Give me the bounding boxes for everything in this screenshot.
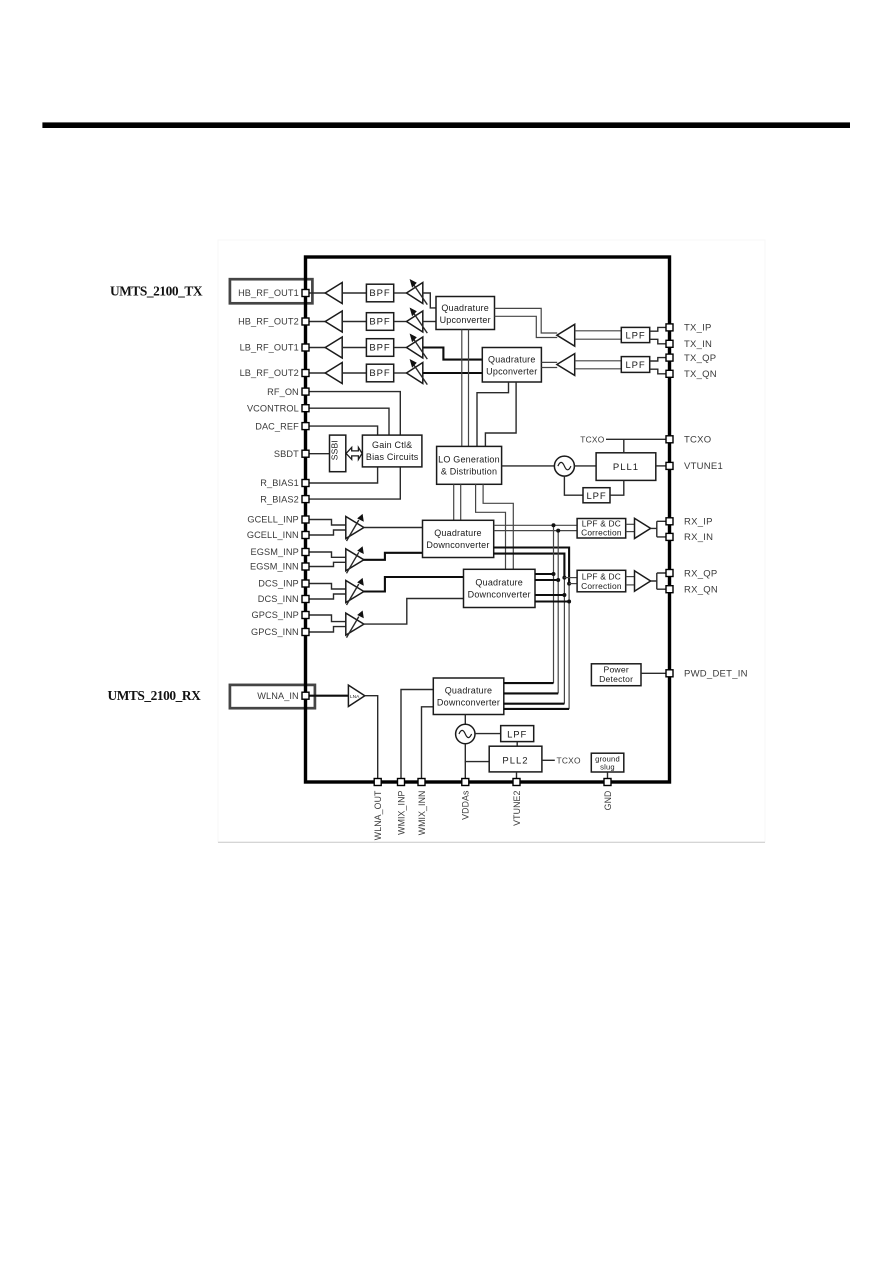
quadrature upconverter U1 [436, 297, 495, 330]
wire row4 to upconverter U2 [423, 372, 483, 374]
wire into LPF DC 2 line2 [569, 583, 577, 585]
quadrature downconverter D2 [464, 569, 536, 607]
wire LPF1 to A1 line2 [575, 338, 622, 340]
bidirectional arrow SSBI-GainCtl [346, 447, 362, 459]
VGA row4 [407, 363, 423, 384]
wire LPF3 to PLL1 [610, 480, 624, 495]
svg-text:& Distribution: & Distribution [441, 466, 497, 476]
wire TX_IN jog [650, 339, 667, 344]
chip outline [306, 257, 670, 782]
wire U1 LO line1 [461, 330, 463, 447]
svg-text:LNA: LNA [350, 694, 360, 700]
pin WLNA_OUT [374, 779, 381, 786]
svg-text:PLL1: PLL1 [613, 462, 639, 473]
svg-text:Detector: Detector [599, 674, 633, 684]
svg-text:VTUNE1: VTUNE1 [684, 461, 723, 472]
wire WLNA_IN to LNA [308, 695, 348, 697]
wire TX row4 pin to amp [308, 372, 325, 374]
svg-text:TCXO: TCXO [684, 435, 711, 446]
svg-text:BPF: BPF [369, 343, 390, 354]
svg-text:Power: Power [604, 664, 629, 674]
wire DCS_INP [308, 584, 346, 590]
highlight box HB_RF_OUT1 [230, 279, 313, 303]
wire TX_QP jog [650, 358, 667, 361]
svg-text:GCELL_INN: GCELL_INN [247, 530, 299, 540]
wire TX row3 amp to BPF [342, 347, 366, 349]
svg-text:LB_RF_OUT1: LB_RF_OUT1 [240, 343, 299, 353]
LNA EGSM [346, 549, 364, 571]
wire TX_QN jog [650, 369, 667, 374]
amplifier A4 RX Q [635, 571, 651, 591]
svg-text:VDDAs: VDDAs [461, 790, 471, 820]
wire GCELL_INP [308, 520, 346, 526]
wire TCXO net [606, 438, 667, 440]
wire D3 out4 [504, 708, 569, 710]
svg-text:RX_QN: RX_QN [684, 585, 718, 596]
wire LPF2 to A2 line2 [575, 368, 622, 370]
svg-text:LPF: LPF [507, 730, 527, 741]
wire U2 LO line1 [477, 382, 509, 446]
VGA row1 gain arrow [413, 284, 427, 305]
pin GCELL_INP [302, 516, 309, 523]
svg-text:PWD_DET_IN: PWD_DET_IN [684, 669, 748, 680]
svg-text:LPF: LPF [586, 491, 606, 502]
LPF TX I [621, 327, 649, 342]
junction dots [552, 523, 572, 603]
svg-text:HB_RF_OUT2: HB_RF_OUT2 [238, 317, 299, 327]
pin RX_QN [666, 586, 673, 593]
wire GPCS output [362, 599, 463, 625]
svg-text:R_BIAS1: R_BIAS1 [260, 478, 299, 488]
svg-text:BPF: BPF [369, 368, 390, 379]
svg-text:Correction: Correction [581, 528, 622, 538]
svg-text:LO Generation: LO Generation [438, 454, 500, 464]
wire WMIX_INN [422, 707, 434, 782]
svg-text:TCXO: TCXO [580, 434, 605, 444]
PLL2 box [489, 746, 542, 772]
horizontal rule [42, 122, 850, 128]
wire WMIX_INP [401, 690, 433, 783]
wire row2 to upconverter U1 [423, 321, 436, 323]
amplifier A2 TX Q [557, 354, 575, 376]
svg-text:Correction: Correction [581, 581, 622, 591]
svg-text:RF_ON: RF_ON [267, 387, 299, 397]
svg-text:PLL2: PLL2 [502, 756, 528, 767]
LNA DCS [346, 581, 364, 603]
wire LPFDC2 to A4 a [626, 576, 635, 578]
amplifier TX row4 [325, 363, 342, 384]
VGA row3 gain arrow [413, 339, 427, 360]
amplifier TX row2 [325, 311, 342, 332]
wire D2 out1 [535, 573, 554, 575]
svg-text:Quadrature: Quadrature [475, 578, 523, 588]
pin DAC_REF [302, 423, 309, 430]
LPF TX Q [621, 357, 649, 373]
wire LO to D2 line1 [476, 484, 506, 569]
oscillator O2 [456, 724, 475, 743]
svg-text:EGSM_INN: EGSM_INN [250, 562, 299, 572]
pin HB_RF_OUT1 [302, 290, 309, 297]
pin VTUNE1 [666, 462, 673, 469]
wire U2 input N [541, 367, 557, 369]
svg-text:GPCS_INP: GPCS_INP [252, 610, 299, 620]
pin VTUNE2 [513, 779, 520, 786]
figure frame bottom line [218, 841, 765, 843]
wire SBDT [308, 453, 330, 455]
wire LO to D2 line2 [483, 484, 513, 569]
highlight box WLNA_IN [230, 685, 315, 708]
svg-text:UMTS_2100_RX: UMTS_2100_RX [108, 688, 202, 703]
pin RF_ON [302, 388, 309, 395]
wire U1 input P [495, 308, 558, 333]
wire GPCS_INP [308, 615, 346, 622]
wire LO to D1 line1 [453, 484, 455, 520]
LNA GCELL gain arrow [347, 520, 359, 541]
wire D1 out I+ [494, 524, 577, 526]
wire TX row2 amp to BPF [342, 321, 366, 323]
svg-text:UMTS_2100_TX: UMTS_2100_TX [110, 283, 203, 298]
pin SBDT [302, 450, 309, 457]
wire DAC_REF [308, 426, 378, 435]
svg-text:GND: GND [603, 791, 613, 811]
svg-text:Downconverter: Downconverter [426, 540, 489, 550]
svg-text:TCXO: TCXO [557, 755, 582, 765]
LPF DC Correction 2 [577, 570, 626, 592]
quadrature downconverter D1 [423, 520, 494, 557]
svg-text:Upconverter: Upconverter [486, 367, 537, 377]
SSBI box [330, 435, 346, 472]
svg-text:LB_RF_OUT2: LB_RF_OUT2 [240, 368, 299, 378]
svg-text:SBDT: SBDT [274, 449, 299, 459]
VGA row3 [407, 337, 423, 358]
pin LB_RF_OUT1 [302, 344, 309, 351]
svg-text:TX_QN: TX_QN [684, 369, 717, 380]
wire LNA to WLNA_OUT [365, 696, 378, 782]
wire bundle V2 [557, 531, 559, 694]
svg-text:WLNA_IN: WLNA_IN [257, 691, 299, 701]
svg-text:Downconverter: Downconverter [437, 698, 500, 708]
VGA row4 gain arrow [413, 364, 427, 385]
wire DCS output [364, 577, 464, 592]
svg-text:SSBI: SSBI [330, 440, 340, 460]
svg-text:DAC_REF: DAC_REF [255, 421, 299, 431]
wire row3 to upconverter U2 [423, 348, 483, 360]
svg-text:Quadrature: Quadrature [445, 686, 493, 696]
svg-text:LPF: LPF [625, 360, 645, 371]
wire A3 to RX pins [651, 521, 667, 537]
wire TCXO to PLL1 [623, 439, 625, 453]
wire TX row3 pin to amp [308, 347, 325, 349]
BPF row1 [366, 284, 393, 302]
wire VDDAs stub [464, 762, 466, 782]
svg-text:Quadrature: Quadrature [441, 303, 489, 313]
Power Detector box [591, 664, 641, 686]
wire U1 LO line2 [468, 330, 470, 447]
wire PLL2 to TCXO label [542, 759, 555, 761]
wire LPF1 to A1 line1 [575, 330, 622, 332]
VGA row2 [407, 311, 423, 332]
pin WLNA_IN [302, 692, 309, 699]
pin R_BIAS2 [302, 496, 309, 503]
wire TX row2 BPF to VGA [394, 321, 407, 323]
svg-text:Upconverter: Upconverter [440, 315, 491, 325]
pin VCONTROL [302, 405, 309, 412]
wire TX row4 BPF to VGA [394, 372, 407, 374]
wire TX_IP jog [650, 327, 667, 331]
wire A4 to RX pins [651, 573, 667, 589]
pin EGSM_INN [302, 563, 309, 570]
wire GPCS_INN [308, 627, 346, 632]
LNA GCELL [346, 517, 364, 539]
Gain Ctl and Bias Circuits box [362, 435, 422, 467]
pin EGSM_INP [302, 549, 309, 556]
svg-text:WMIX_INN: WMIX_INN [417, 791, 427, 836]
pin LB_RF_OUT2 [302, 370, 309, 377]
LNA GPCS [346, 613, 364, 635]
wire oscillator to PLL1 [574, 465, 596, 467]
svg-text:TX_IN: TX_IN [684, 339, 712, 350]
svg-text:WMIX_INP: WMIX_INP [396, 790, 406, 834]
svg-text:slug: slug [600, 763, 615, 772]
pin PWD_DET_IN [666, 670, 673, 677]
pin TX_IP [666, 324, 673, 331]
svg-text:Quadrature: Quadrature [434, 528, 482, 538]
LNA DCS gain arrow [347, 584, 359, 605]
svg-text:RX_IP: RX_IP [684, 517, 713, 528]
wire D1 out Q+ [494, 548, 569, 584]
amplifier A3 RX I [635, 518, 651, 538]
wire D2 out3 [535, 594, 564, 596]
wire GCELL_INN [308, 530, 346, 535]
wire power detector to pin [641, 672, 667, 674]
wire PLL2 to VTUNE2 [516, 772, 518, 782]
svg-text:GPCS_INN: GPCS_INN [251, 627, 299, 637]
LPF3 box [583, 488, 610, 503]
wire PLL1 to VTUNE1 [656, 465, 667, 467]
LPF DC Correction 1 [577, 519, 626, 539]
pin GPCS_INN [302, 629, 309, 636]
svg-text:EGSM_INP: EGSM_INP [251, 547, 299, 557]
pin VDDAs [462, 779, 469, 786]
VGA row1 [407, 283, 423, 304]
svg-text:VTUNE2: VTUNE2 [512, 790, 522, 825]
pin RX_IP [666, 518, 673, 525]
wire EGSM_INN [308, 562, 346, 566]
wire bundle V1 [553, 525, 555, 683]
wire D3 to oscillator O2 [464, 715, 466, 725]
svg-text:R_BIAS2: R_BIAS2 [260, 494, 299, 504]
amplifier TX row3 [325, 337, 342, 358]
wire U2 input P [541, 361, 557, 363]
wire U1 input N [495, 316, 558, 337]
LPF4 box [501, 726, 534, 742]
wire EGSM_INP [308, 552, 346, 557]
oscillator O1 [554, 456, 574, 476]
wire O2 to LPF4 [475, 733, 501, 735]
pin DCS_INN [302, 596, 309, 603]
svg-text:WLNA_OUT: WLNA_OUT [373, 790, 383, 840]
wire D1 out I- [494, 530, 577, 532]
pin RX_IN [666, 533, 673, 540]
svg-text:GCELL_INP: GCELL_INP [247, 515, 298, 525]
pin TX_IN [666, 340, 673, 347]
svg-text:Downconverter: Downconverter [468, 590, 531, 600]
BPF row4 [366, 364, 393, 382]
wire LO to oscillator [502, 465, 555, 467]
wire bundle V3 [563, 578, 565, 704]
wire TX row2 pin to amp [308, 321, 325, 323]
LNA GPCS gain arrow [347, 617, 359, 638]
pin TX_QP [666, 354, 673, 361]
wire EGSM output [364, 553, 423, 560]
wire TX row1 amp to BPF [342, 292, 366, 294]
pin DCS_INP [302, 580, 309, 587]
pin GPCS_INP [302, 612, 309, 619]
wire row1 to upconverter U1 [423, 293, 436, 308]
pin RX_QP [666, 570, 673, 577]
wire bundle V4 [568, 584, 570, 709]
wire LPF4 to PLL2 [516, 742, 518, 747]
wire TX row4 amp to BPF [342, 372, 366, 374]
wire U2 LO line2 [485, 382, 516, 446]
svg-text:TX_QP: TX_QP [684, 353, 716, 364]
quadrature downconverter D3 [433, 678, 504, 715]
VGA row2 gain arrow [413, 313, 427, 334]
wire D3 out3 [504, 703, 565, 705]
wire TX row3 BPF to VGA [394, 347, 407, 349]
wire oscillator to LPF3 [564, 476, 583, 495]
svg-text:Bias Circuits: Bias Circuits [366, 452, 419, 462]
wire VCONTROL [308, 408, 389, 435]
wire TX row1 BPF to VGA [394, 292, 407, 294]
svg-text:LPF & DC: LPF & DC [582, 571, 621, 581]
quadrature upconverter U2 [482, 348, 541, 383]
wire D2 out4 [535, 600, 569, 602]
wire LPFDC1 to A3 b [626, 531, 635, 533]
BPF row2 [366, 313, 393, 331]
wire DCS_INN [308, 594, 346, 599]
svg-text:LPF: LPF [625, 331, 645, 342]
wire into LPF DC 2 line1 [564, 577, 577, 579]
ground slug box [591, 753, 624, 772]
svg-text:VCONTROL: VCONTROL [247, 403, 299, 413]
svg-text:HB_RF_OUT1: HB_RF_OUT1 [238, 288, 299, 298]
wire GCELL output [364, 527, 422, 529]
svg-text:Gain Ctl&: Gain Ctl& [372, 440, 412, 450]
pin GCELL_INN [302, 532, 309, 539]
svg-text:RX_IN: RX_IN [684, 532, 713, 543]
svg-text:BPF: BPF [369, 288, 390, 299]
wire TX row1 pin to amp [308, 292, 325, 294]
wire O2 to PLL2 [465, 744, 489, 762]
wire ground slug to GND [607, 772, 609, 782]
wire LPF2 to A2 line1 [575, 360, 622, 362]
wire RF_ON [308, 392, 400, 436]
wire D2 out2 [535, 579, 558, 581]
svg-text:DCS_INN: DCS_INN [258, 594, 299, 604]
LNA EGSM gain arrow [347, 552, 359, 573]
amplifier TX row1 [325, 283, 342, 304]
wire LO to D1 line2 [460, 484, 462, 520]
wire LPFDC2 to A4 b [626, 584, 635, 586]
pin HB_RF_OUT2 [302, 318, 309, 325]
pin GND [604, 779, 611, 786]
wire D3 out1 [504, 682, 554, 684]
pin WMIX_INN [418, 779, 425, 786]
svg-text:DCS_INP: DCS_INP [258, 579, 299, 589]
PLL1 box [596, 453, 656, 481]
wire D3 out2 [504, 692, 558, 694]
svg-text:BPF: BPF [369, 317, 390, 328]
svg-text:TX_IP: TX_IP [684, 323, 712, 334]
wire R_BIAS2 [308, 467, 400, 499]
pin R_BIAS1 [302, 480, 309, 487]
svg-text:RX_QP: RX_QP [684, 568, 717, 579]
pin TCXO [666, 436, 673, 443]
figure frame [218, 240, 765, 842]
amplifier A1 TX I [557, 324, 575, 346]
wire LPFDC1 to A3 a [626, 523, 635, 525]
pin TX_QN [666, 370, 673, 377]
LNA WCDMA [348, 685, 364, 706]
wire R_BIAS1 [308, 467, 378, 483]
wire D1 out Q- [494, 554, 565, 578]
LO Generation and Distribution box [437, 446, 502, 484]
svg-text:Quadrature: Quadrature [488, 355, 536, 365]
BPF row3 [366, 339, 393, 357]
pin WMIX_INP [398, 779, 405, 786]
